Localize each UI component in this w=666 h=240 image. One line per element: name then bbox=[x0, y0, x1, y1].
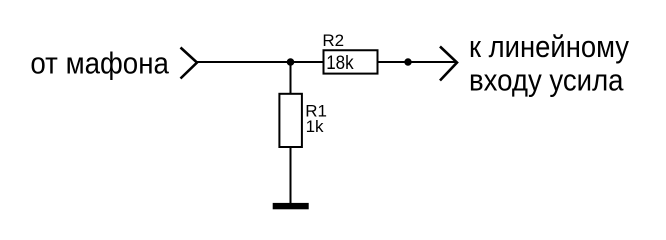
wire node B to output arrow bbox=[408, 61, 456, 63]
resistor R1 designator label R1 bbox=[305, 102, 327, 121]
output arrow bbox=[440, 47, 457, 81]
svg-text:к линейному: к линейному bbox=[469, 29, 629, 64]
node A junction dot bbox=[287, 58, 295, 66]
wire node A down to R1 bbox=[290, 62, 292, 94]
wire R1 to ground bbox=[290, 148, 292, 203]
resistor R2 body bbox=[324, 50, 378, 73]
svg-text:1k: 1k bbox=[306, 117, 324, 136]
svg-text:18k: 18k bbox=[326, 53, 354, 74]
svg-text:от мафона: от мафона bbox=[30, 46, 169, 81]
resistor R2 designator label R2 bbox=[322, 31, 344, 50]
wire input to node A bbox=[197, 61, 291, 63]
wire R2 to node B bbox=[379, 61, 409, 63]
input label "от мафона" bbox=[30, 46, 169, 81]
output label line 1 "к линейному" bbox=[469, 29, 629, 64]
output label line 2 "входу усила" bbox=[469, 63, 624, 98]
svg-text:входу усила: входу усила bbox=[469, 63, 624, 98]
wire node A to R2 bbox=[291, 61, 324, 63]
svg-text:R2: R2 bbox=[322, 31, 344, 50]
ground bbox=[273, 203, 309, 209]
resistor R2 value label 18k bbox=[326, 53, 354, 74]
resistor R1 value label 1k bbox=[306, 117, 324, 136]
input arrow bbox=[181, 48, 198, 79]
node B dot bbox=[404, 58, 411, 65]
resistor R1 body bbox=[279, 94, 302, 147]
